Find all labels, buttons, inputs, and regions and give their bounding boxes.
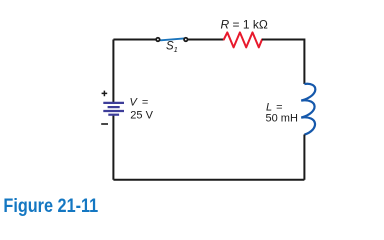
wire resistor to top-right corner and down xyxy=(262,40,304,85)
svg-text:Figure 21-11: Figure 21-11 xyxy=(3,195,98,217)
battery minus sign xyxy=(101,123,108,125)
svg-text:L =: L = xyxy=(266,101,283,113)
resistor R1 zigzag xyxy=(224,32,262,47)
wire switch to resistor xyxy=(188,39,224,41)
svg-text:S1: S1 xyxy=(166,40,178,54)
inductor L1 coil xyxy=(301,84,315,135)
wire left lower segment xyxy=(112,115,114,180)
switch S1 blade xyxy=(161,38,185,40)
wire inductor down to bottom-right corner xyxy=(303,135,305,180)
svg-text:R = 1 kΩ: R = 1 kΩ xyxy=(221,17,268,31)
svg-text:V =: V = xyxy=(130,97,149,109)
battery V1 plate long bottom xyxy=(103,110,124,112)
battery V1 plate long top xyxy=(103,102,124,104)
battery V1 plate short bottom xyxy=(108,114,119,116)
wire top-left segment xyxy=(113,39,155,41)
switch S1 left terminal xyxy=(156,38,160,42)
svg-text:25 V: 25 V xyxy=(130,109,153,121)
switch S1 right terminal xyxy=(184,38,188,42)
battery plus sign xyxy=(102,91,108,97)
battery V1 plate short xyxy=(108,106,120,108)
wire bottom xyxy=(113,179,304,181)
wire left upper segment xyxy=(112,40,114,104)
svg-text:50 mH: 50 mH xyxy=(266,113,298,125)
